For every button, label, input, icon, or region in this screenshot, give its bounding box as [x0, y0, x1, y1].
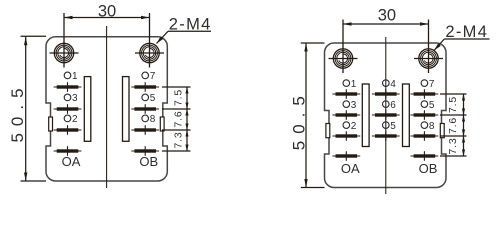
svg-text:OA: OA	[62, 154, 81, 169]
terminal R-colmid row1	[372, 89, 400, 99]
svg-text:2: 2	[351, 121, 357, 132]
svg-text:30: 30	[98, 3, 116, 21]
mounting hole H3 (right plate)	[329, 20, 358, 74]
label O7 right col (right plate)	[421, 79, 435, 90]
dimension 30 text (right)	[378, 6, 396, 24]
svg-text:3: 3	[351, 100, 357, 111]
svg-text:7.3: 7.3	[447, 138, 459, 155]
dim text 7.3 (left)	[172, 132, 184, 149]
svg-text:7: 7	[429, 79, 435, 90]
terminal L-col2 row2	[131, 104, 159, 114]
label O6 mid col (right plate)	[383, 100, 397, 111]
dim text 7.6 (right)	[447, 117, 459, 134]
right socket plate outline	[325, 43, 447, 188]
terminal R-col1 row4	[332, 151, 360, 161]
label O1 (left plate)	[64, 71, 78, 82]
mounting hole H1 (left plate)	[50, 13, 79, 68]
left plate center line	[106, 26, 108, 188]
dim text 7.6 (left)	[172, 111, 184, 128]
svg-text:5: 5	[429, 100, 435, 111]
terminal L-col1 row3	[54, 125, 82, 135]
svg-text:OA: OA	[341, 161, 360, 176]
dimension 30 line (right)	[343, 22, 429, 25]
terminal R-col3 row4	[411, 151, 439, 161]
left socket plate outline	[46, 37, 167, 181]
label O1 (right plate)	[343, 79, 357, 90]
left plate notch slot right	[160, 117, 164, 131]
label O3 (right plate)	[343, 100, 357, 111]
svg-text:50.5: 50.5	[289, 89, 308, 150]
terminal L-col2 row4	[131, 146, 159, 156]
svg-text:3: 3	[72, 93, 78, 104]
label O3 (left plate)	[64, 93, 78, 104]
terminal R-col3 row3	[411, 131, 439, 141]
svg-text:5: 5	[390, 121, 396, 132]
left plate slot A	[84, 77, 91, 142]
label O2 (right plate)	[343, 121, 357, 132]
label 2-M4 with leader (left)	[157, 16, 212, 44]
svg-text:50.5: 50.5	[8, 81, 27, 142]
label O5 right col (right plate)	[421, 100, 435, 111]
terminal L-col1 row1	[54, 82, 82, 92]
label O7 right col (left plate)	[142, 71, 156, 82]
label O8 right col (left plate)	[142, 114, 156, 125]
terminal R-col1 row2	[332, 110, 360, 120]
terminal L-col1 row4	[54, 146, 82, 156]
dim text 7.5 (right)	[447, 96, 459, 113]
right plate slot D	[403, 84, 410, 147]
pitch dimension lines (right)	[440, 94, 467, 156]
svg-text:4: 4	[390, 79, 396, 90]
svg-text:30: 30	[378, 6, 396, 24]
terminal R-col3 row2	[411, 110, 439, 120]
svg-text:OB: OB	[139, 154, 158, 169]
mounting hole H2 (left plate)	[135, 13, 164, 68]
svg-text:8: 8	[429, 121, 435, 132]
label OA (right plate)	[341, 161, 360, 176]
terminal R-colmid row2	[372, 110, 400, 120]
svg-text:7.6: 7.6	[447, 117, 459, 134]
terminal L-col2 row3	[131, 125, 159, 135]
svg-text:5: 5	[150, 93, 156, 104]
svg-text:1: 1	[72, 71, 78, 82]
label 2-M4 with leader (right)	[434, 23, 490, 50]
label O5 mid col (right plate)	[383, 121, 397, 132]
svg-text:8: 8	[150, 114, 156, 125]
mounting hole H4 (right plate)	[414, 20, 443, 74]
svg-text:6: 6	[390, 100, 396, 111]
svg-text:OB: OB	[419, 161, 438, 176]
label OB (left plate)	[139, 154, 158, 169]
svg-text:7.6: 7.6	[172, 111, 184, 128]
pitch dimension lines (left)	[162, 87, 191, 151]
label O8 right col (right plate)	[421, 121, 435, 132]
dimension 30 line (left)	[64, 16, 150, 19]
label O4 mid col (right plate)	[383, 79, 397, 90]
dimension 50.5 line (left)	[21, 36, 47, 181]
terminal R-col1 row1	[332, 89, 360, 99]
label O5 right col (left plate)	[142, 93, 156, 104]
right plate notch slot right	[440, 124, 444, 138]
svg-text:7.3: 7.3	[172, 132, 184, 149]
svg-text:1: 1	[351, 79, 357, 90]
dim text 7.3 (right)	[447, 138, 459, 155]
label O2 (left plate)	[64, 114, 78, 125]
dimension 50.5 line (right)	[301, 43, 325, 188]
left plate slot B	[123, 77, 130, 142]
svg-text:7.5: 7.5	[172, 89, 184, 106]
svg-text:7: 7	[150, 71, 156, 82]
left plate notch slot left	[49, 117, 53, 131]
terminal R-colmid row3	[372, 131, 400, 141]
terminal R-col1 row3	[332, 131, 360, 141]
dimension 50.5 text (right)	[289, 89, 308, 150]
dimension 30 text (left)	[98, 3, 116, 21]
dimension 50.5 text (left)	[8, 81, 27, 142]
label OA (left plate)	[62, 154, 81, 169]
terminal L-col1 row2	[54, 104, 82, 114]
terminal L-col2 row1	[131, 82, 159, 92]
right plate slot C	[362, 84, 369, 147]
svg-text:2: 2	[72, 114, 78, 125]
right plate notch slot left	[326, 124, 330, 138]
label OB (right plate)	[419, 161, 438, 176]
dim text 7.5 (left)	[172, 89, 184, 106]
terminal R-col3 row1	[411, 89, 439, 99]
right plate center line	[385, 37, 387, 194]
svg-text:7.5: 7.5	[447, 96, 459, 113]
